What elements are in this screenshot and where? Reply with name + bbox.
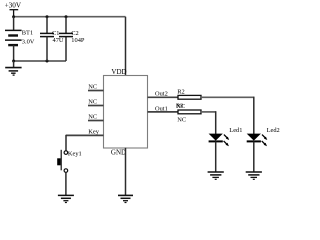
svg-text:R2: R2 <box>177 88 184 95</box>
battery BT1 <box>5 17 22 61</box>
pin Out2 / wire to R2 <box>148 96 179 98</box>
wire switch to ground <box>65 173 67 196</box>
svg-text:+30V: +30V <box>5 1 22 9</box>
svg-text:Key1: Key1 <box>68 151 82 158</box>
wire VDD drop to pin VDD <box>125 17 127 76</box>
wire R3 to Led1 <box>201 111 216 113</box>
node junction C1 bottom <box>46 60 49 63</box>
wire bottom rail (ground net) <box>14 60 66 62</box>
svg-text:C1: C1 <box>52 30 59 37</box>
switch Key1 <box>57 150 67 173</box>
svg-text:GND: GND <box>111 148 126 156</box>
LED Led1 <box>209 134 230 172</box>
node junction battery top <box>12 15 15 18</box>
pin Key <box>66 134 104 136</box>
pin NC 1 <box>88 90 104 92</box>
resistor R3 <box>178 110 201 114</box>
svg-text:NC: NC <box>88 99 97 106</box>
ground (IC GND) <box>118 195 133 202</box>
svg-text:C2: C2 <box>71 30 78 37</box>
wire Key pin to switch Key1 <box>65 135 67 151</box>
ground (battery) <box>5 61 21 75</box>
svg-text:Led1: Led1 <box>229 127 242 134</box>
node junction battery bottom <box>12 60 15 63</box>
svg-text:NC: NC <box>88 84 97 91</box>
svg-text:3.0V: 3.0V <box>22 39 35 46</box>
pin NC 2 <box>88 105 104 107</box>
ground (Key1) <box>58 195 74 202</box>
svg-text:NC: NC <box>176 103 185 110</box>
capacitor C1 <box>40 17 54 61</box>
IC U1 body <box>104 76 148 149</box>
capacitor C2 <box>59 17 73 37</box>
svg-text:VDD: VDD <box>111 68 126 76</box>
resistor R2 <box>178 95 201 99</box>
svg-text:NC: NC <box>177 117 186 124</box>
svg-text:NC: NC <box>88 114 97 121</box>
wire GND pin down <box>125 148 127 196</box>
svg-text:Key: Key <box>88 129 99 136</box>
node junction C1 top <box>46 15 49 18</box>
wire C2 bottom lead <box>65 37 67 61</box>
pin NC 3 <box>88 120 104 122</box>
svg-text:104P: 104P <box>71 37 85 44</box>
svg-text:47U: 47U <box>53 37 64 44</box>
power +30V bar symbol <box>10 10 19 17</box>
ground (Led1) <box>208 172 224 179</box>
LED Led2 <box>247 134 268 172</box>
node junction C2 top <box>65 15 68 18</box>
pin Out1 / wire to R3 <box>148 111 179 113</box>
wire R2 to Led2 <box>201 96 254 98</box>
svg-text:BT1: BT1 <box>22 30 33 37</box>
wire top rail (+30V net) <box>14 16 126 18</box>
ground (Led2) <box>246 172 262 179</box>
svg-text:Led2: Led2 <box>267 127 280 134</box>
